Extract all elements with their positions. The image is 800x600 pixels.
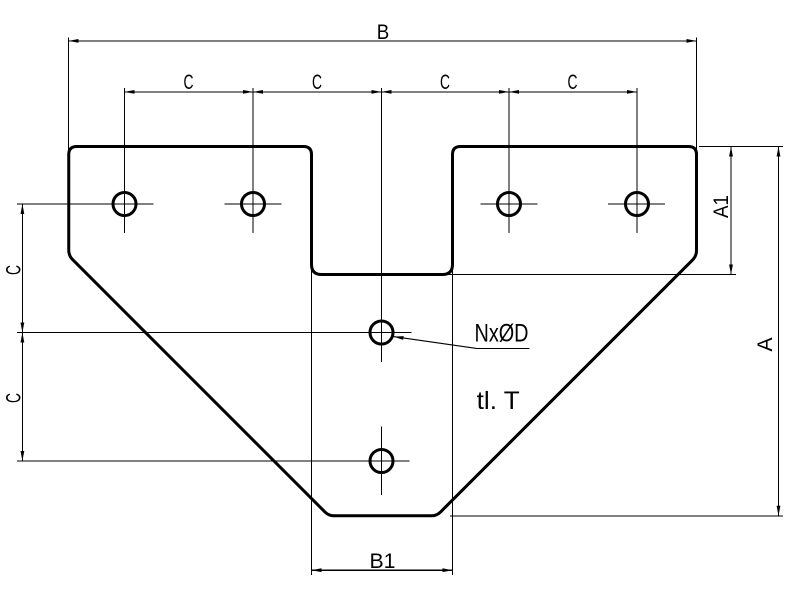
hole H1 top-left xyxy=(113,193,136,216)
plate outline xyxy=(69,147,697,516)
leader line to hole H5 xyxy=(394,337,476,349)
centerline horizontal hole H4 xyxy=(608,203,665,205)
hole H5 middle xyxy=(370,321,393,344)
svg-text:C: C xyxy=(184,71,194,94)
B dimension line xyxy=(69,40,697,42)
B arrow left xyxy=(69,39,79,43)
left C arrow up at y=204 xyxy=(21,204,25,214)
B dimension extension line left xyxy=(68,37,70,152)
hole H3 xyxy=(498,193,521,216)
B dimension extension line right xyxy=(696,37,698,150)
A1 dimension line xyxy=(730,147,732,275)
extension line at hole row y=204 xyxy=(17,203,154,205)
A1 arrow down xyxy=(729,265,733,275)
svg-text:A1: A1 xyxy=(710,195,733,218)
leader underline xyxy=(476,347,530,349)
svg-text:C: C xyxy=(440,71,450,94)
C arrow pair at x=381.5 xyxy=(372,90,382,94)
C extension / centerline through hole H1 xyxy=(124,88,126,233)
B1 extension line left xyxy=(311,266,313,575)
hole H4 top-right xyxy=(626,193,649,216)
C arrow at x=637 xyxy=(627,90,637,94)
svg-text:C: C xyxy=(3,265,26,275)
left C arrow down at y=461 xyxy=(21,451,25,461)
B arrow right xyxy=(687,39,697,43)
centerline horizontal hole H2 xyxy=(225,203,282,205)
A arrow down xyxy=(777,506,781,516)
C arrow at x=124.5 xyxy=(125,90,135,94)
centerline vertical hole H6 xyxy=(381,427,383,496)
C dimension line (top row) xyxy=(125,91,637,93)
B1 dimension line xyxy=(312,569,453,571)
svg-text:B1: B1 xyxy=(370,550,396,573)
C extension / centerline through hole H4 xyxy=(636,88,638,233)
leader arrowhead xyxy=(394,336,404,340)
svg-text:A: A xyxy=(754,337,777,351)
C extension / centerline through hole H3 xyxy=(508,88,510,233)
extension line at hole row y=332.5 xyxy=(17,332,412,334)
left C arrow pair at y=332.5 xyxy=(21,323,25,333)
A dimension line xyxy=(778,147,780,516)
svg-text:C: C xyxy=(312,71,322,94)
C extension / centerline through hole H2 xyxy=(252,88,254,233)
svg-text:tl. T: tl. T xyxy=(477,387,520,415)
svg-text:NxØD: NxØD xyxy=(475,320,529,348)
top extension line for A1 and A xyxy=(699,146,783,148)
svg-text:C: C xyxy=(568,71,578,94)
hole H2 xyxy=(242,193,265,216)
extension line at notch bottom for A1 xyxy=(447,274,736,276)
hole H6 lower xyxy=(370,450,393,473)
B1 arrow right xyxy=(443,568,453,572)
B1 extension line right xyxy=(452,266,454,575)
svg-text:B: B xyxy=(377,21,390,44)
A arrow up xyxy=(777,147,781,157)
C extension / center axis through notch and hole H5 xyxy=(381,88,383,362)
C arrow pair at x=253 xyxy=(243,90,253,94)
extension line at hole row y=461 xyxy=(17,460,410,462)
bottom extension line for A xyxy=(450,515,783,517)
left C dimension line (vertical) xyxy=(21,204,23,461)
B1 arrow left xyxy=(312,568,322,572)
svg-text:C: C xyxy=(3,393,26,403)
C arrow pair at x=509 xyxy=(499,90,509,94)
A1 arrow up xyxy=(729,147,733,157)
centerline horizontal hole H3 xyxy=(481,203,538,205)
